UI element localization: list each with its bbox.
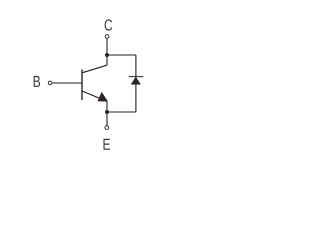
terminal label C — [105, 19, 113, 30]
wire: diode branch vertical — [135, 55, 137, 112]
node: collector junction dot — [105, 53, 109, 57]
wire: emitter down to E terminal — [106, 101, 108, 125]
transistor Q1 emitter arrowhead — [98, 92, 108, 101]
terminal E (open circle) — [105, 126, 109, 130]
wire: base lead — [52, 82, 82, 84]
terminal label B — [34, 76, 40, 87]
diode D1 anode triangle (pointing up, antiparallel) — [131, 77, 140, 84]
terminal B (open circle) — [48, 81, 52, 85]
terminal label E — [103, 139, 110, 150]
wire: bottom rail from diode branch to emitter node — [107, 111, 136, 113]
node: emitter junction dot — [105, 110, 109, 114]
transistor Q1 base bar — [81, 70, 83, 101]
wire: top rail from collector node to diode branch — [107, 54, 136, 56]
transistor Q1 emitter stroke — [82, 91, 107, 101]
transistor Q1 collector stroke — [82, 65, 107, 73]
wire: C terminal down to collector node — [106, 39, 108, 66]
diode D1 cathode bar — [129, 76, 144, 78]
terminal C (open circle) — [105, 35, 109, 39]
